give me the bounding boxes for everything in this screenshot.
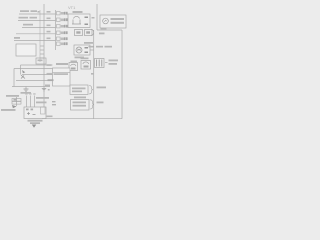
- svg-text:VT1: VT1: [68, 5, 76, 10]
